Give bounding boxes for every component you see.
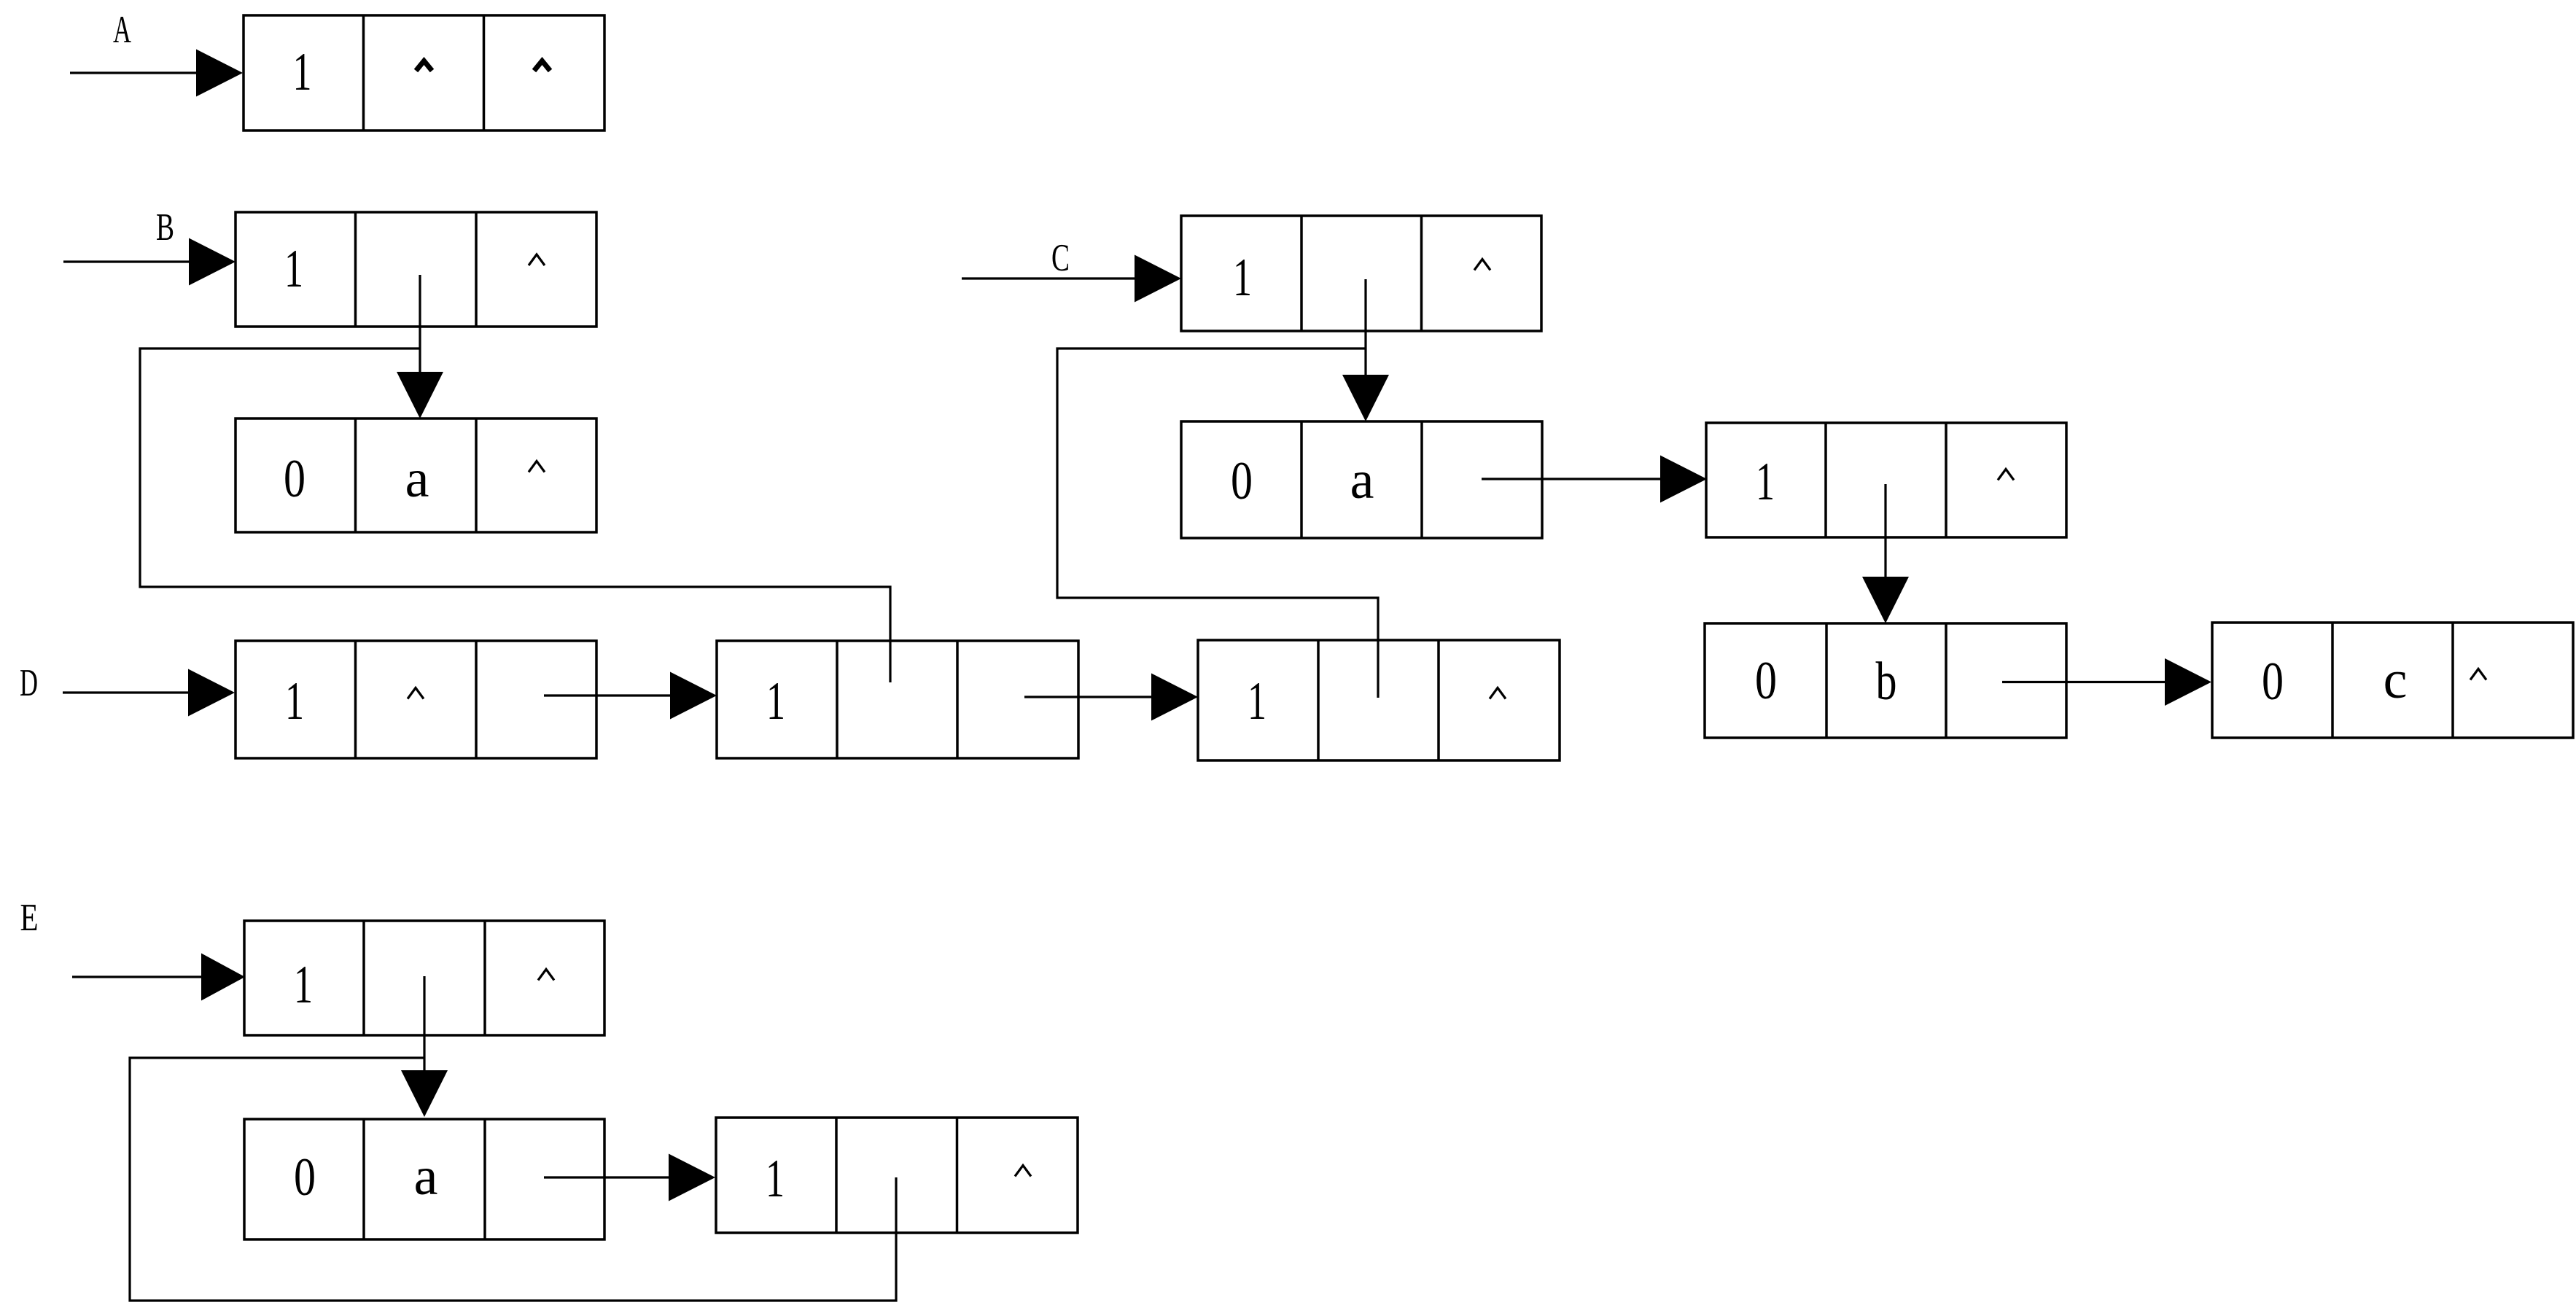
value b in C4 data cell — [1876, 652, 1897, 712]
wire arrow into head node E1 — [72, 954, 245, 1001]
svg-text:1: 1 — [766, 1149, 785, 1209]
null caret D1 hp cell — [408, 688, 424, 699]
svg-text:1: 1 — [284, 239, 303, 299]
wire arrow into head node D1 — [63, 669, 235, 717]
wire from D2 hp cell to B sublist junction — [140, 348, 890, 682]
wire from E3 hp cell looping back to E sublist junction — [130, 1058, 896, 1301]
null caret B2 tp cell — [529, 461, 545, 472]
null caret D3 tp cell — [1490, 688, 1506, 699]
label C — [1051, 237, 1070, 279]
node C3 sublist head [1|.|^] — [1706, 423, 2066, 537]
null caret A1 hp cell — [416, 61, 432, 71]
svg-text:b: b — [1876, 652, 1897, 712]
wire C1 hp down arrow into C2 — [1342, 279, 1389, 421]
wire from D3 hp cell to C sublist junction — [1057, 348, 1378, 698]
value a in E2 data cell — [414, 1147, 438, 1207]
null caret A1 tp cell — [534, 61, 550, 71]
wire arrow from C2 tp to C3 — [1482, 456, 1707, 503]
node A1 head [1|^|^] — [244, 15, 604, 130]
svg-text:C: C — [1051, 237, 1070, 279]
svg-text:1: 1 — [294, 955, 313, 1015]
value 1 in C3 tag cell — [1756, 452, 1775, 512]
svg-text:E: E — [20, 897, 39, 939]
svg-text:D: D — [20, 662, 38, 704]
wire arrow into head node C1 — [962, 255, 1181, 303]
node B2 element [0|a|^] — [236, 418, 596, 532]
label E — [20, 897, 39, 939]
null caret E3 tp cell — [1015, 1166, 1031, 1177]
value 1 in D2 tag cell — [766, 671, 785, 731]
wire arrow from E2 tp to E3 — [544, 1154, 715, 1201]
svg-text:0: 0 — [294, 1148, 316, 1207]
value 0 in C5 tag cell — [2262, 652, 2284, 712]
wire arrow from D1 tp to D2 — [544, 672, 717, 720]
svg-text:A: A — [113, 9, 131, 51]
node C5 element [0|c|^] — [2212, 623, 2573, 738]
label D — [20, 662, 38, 704]
value 1 in A1 tag cell — [293, 42, 312, 102]
value 0 in C4 tag cell — [1755, 651, 1777, 711]
wire arrow from D2 tp to D3 — [1024, 674, 1198, 721]
svg-text:0: 0 — [284, 449, 306, 509]
svg-text:a: a — [1350, 451, 1374, 510]
svg-text:1: 1 — [1756, 452, 1775, 512]
wire arrow into head node A1 — [70, 50, 243, 97]
value 1 in C1 tag cell — [1233, 248, 1252, 308]
label A — [113, 9, 131, 51]
wire B1 hp down arrow into B2 — [397, 275, 443, 418]
node B1 head [1|.|^] — [236, 212, 596, 327]
node D2 [1|.|.] — [717, 641, 1078, 758]
svg-text:1: 1 — [1233, 248, 1252, 308]
node E3 sublist head [1|.|^] — [716, 1118, 1078, 1233]
node C4 element [0|b|.] — [1705, 623, 2066, 738]
value 1 in B1 tag cell — [284, 239, 303, 299]
value 0 in E2 tag cell — [294, 1148, 316, 1207]
null caret C3 tp cell — [1998, 470, 2014, 480]
label B — [156, 206, 174, 249]
value 1 in D1 tag cell — [285, 671, 304, 731]
svg-text:1: 1 — [766, 671, 785, 731]
wire arrow into head node B1 — [63, 238, 236, 286]
wire C3 hp down arrow into C4 — [1862, 484, 1909, 623]
node C1 head [1|.|^] — [1181, 216, 1541, 331]
value 1 in D3 tag cell — [1248, 671, 1266, 731]
svg-text:1: 1 — [1248, 671, 1266, 731]
value c in C5 data cell — [2384, 650, 2408, 710]
node D1 head [1|^|.] — [236, 641, 596, 758]
svg-text:0: 0 — [1231, 451, 1253, 511]
node E1 head [1|.|^] — [244, 921, 604, 1035]
wire arrow from C4 tp to C5 — [2002, 658, 2211, 706]
value 1 in E1 tag cell — [294, 955, 313, 1015]
value 1 in E3 tag cell — [766, 1149, 785, 1209]
svg-text:c: c — [2384, 650, 2408, 710]
svg-text:B: B — [156, 206, 174, 249]
svg-text:0: 0 — [2262, 652, 2284, 712]
svg-text:a: a — [414, 1147, 438, 1207]
svg-text:a: a — [405, 449, 429, 509]
svg-text:1: 1 — [285, 671, 304, 731]
value 0 in C2 tag cell — [1231, 451, 1253, 511]
svg-text:0: 0 — [1755, 651, 1777, 711]
value a in B2 data cell — [405, 449, 429, 509]
svg-text:1: 1 — [293, 42, 312, 102]
null caret C5 tp cell — [2470, 669, 2486, 680]
value a in C2 data cell — [1350, 451, 1374, 510]
null caret B1 tp cell — [529, 254, 545, 265]
value 0 in B2 tag cell — [284, 449, 306, 509]
null caret E1 tp cell — [538, 970, 554, 981]
node D3 [1|.|^] — [1198, 640, 1560, 760]
null caret C1 tp cell — [1474, 260, 1490, 270]
wire E1 hp down arrow into E2 — [401, 976, 448, 1117]
node E2 element [0|a|.] — [244, 1119, 604, 1239]
node C2 element [0|a|.] — [1181, 421, 1542, 538]
